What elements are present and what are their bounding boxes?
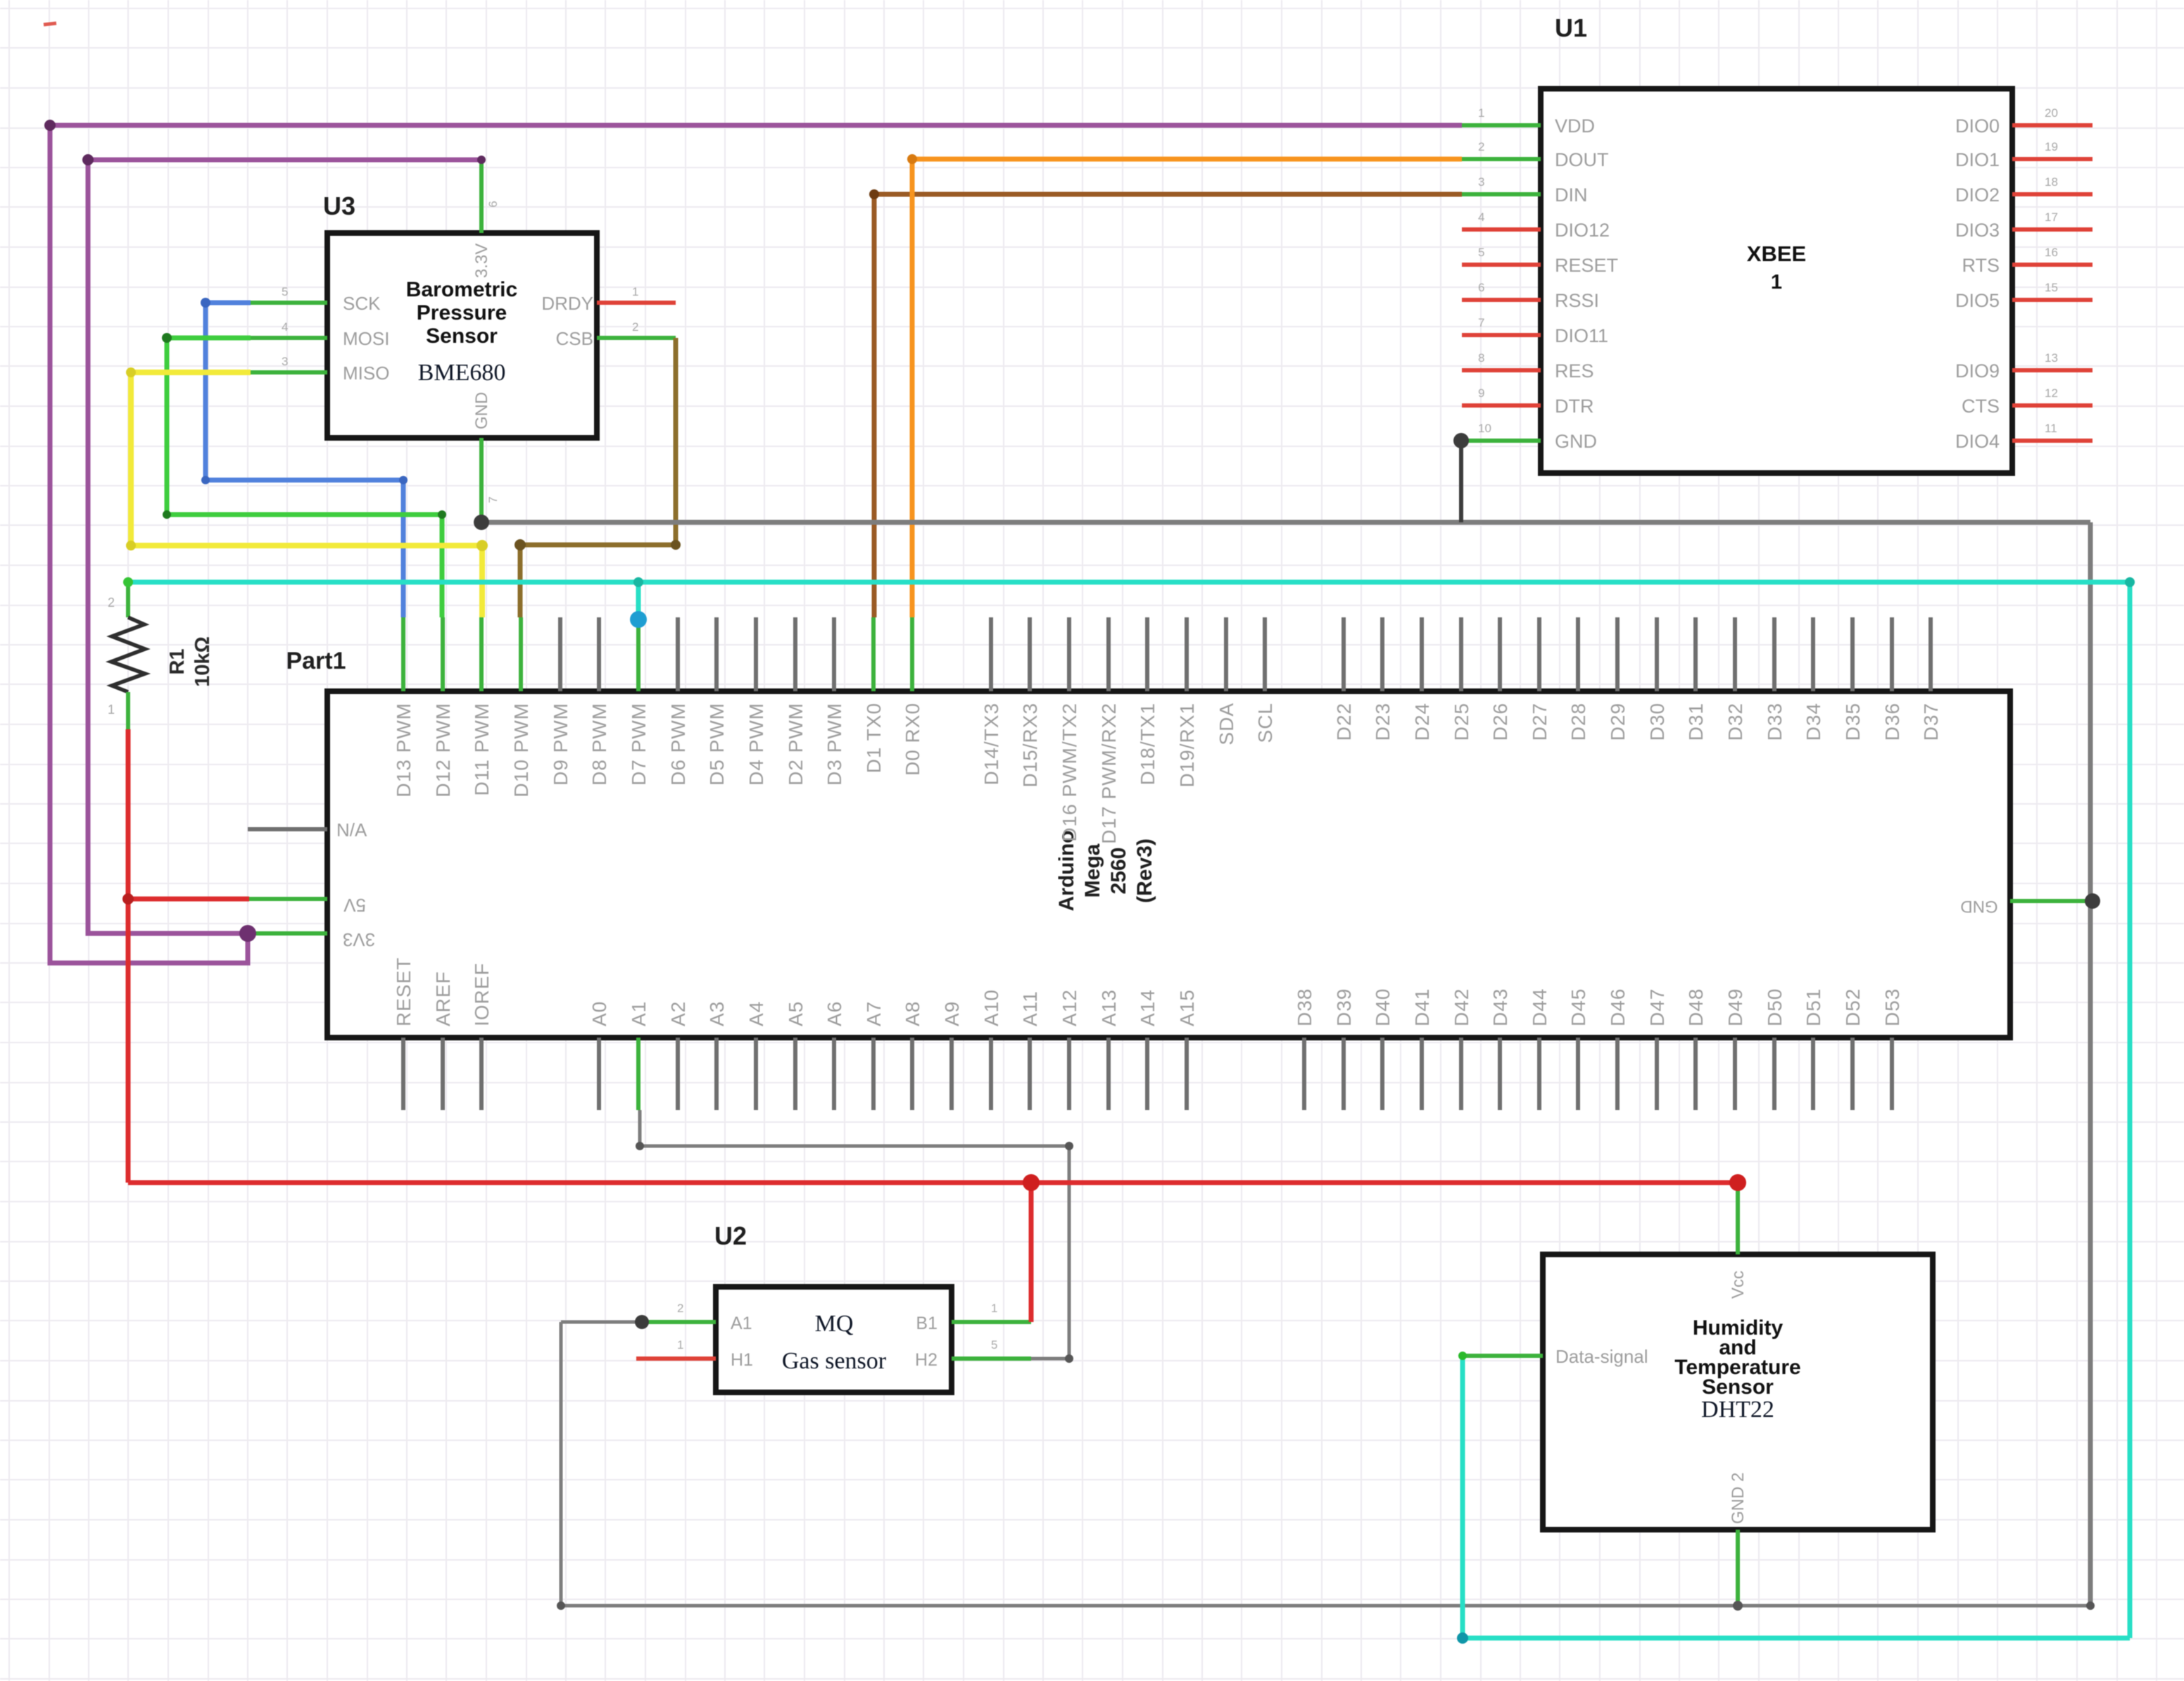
Part1 top pin D19/RX1: [1185, 617, 1189, 691]
IC U1 XBEE module: [1462, 13, 2093, 473]
sensor U2 MQ Gas sensor: [636, 1221, 1031, 1392]
svg-text:DIN: DIN: [1555, 184, 1588, 206]
Part1 right pin GND: [2010, 899, 2088, 903]
svg-text:CSB: CSB: [556, 328, 593, 349]
junction: yellow bend above D11: [476, 540, 488, 551]
svg-text:20: 20: [2045, 106, 2058, 120]
svg-text:A7: A7: [863, 1001, 885, 1026]
svg-text:AREF: AREF: [432, 971, 454, 1026]
svg-text:D49: D49: [1724, 988, 1746, 1026]
Part1 bottom pin D46: [1615, 1038, 1620, 1110]
svg-text:A3: A3: [706, 1001, 728, 1026]
svg-text:A2: A2: [667, 1001, 689, 1026]
svg-text:D15/RX3: D15/RX3: [1019, 703, 1041, 788]
wire: yellow U3 MISO to D11: [131, 372, 482, 617]
svg-text:3.3V: 3.3V: [472, 244, 491, 278]
U1 pin 9 DTR: [1462, 403, 1541, 408]
junction: orange bend at DOUT rail: [907, 154, 917, 164]
Part1 bottom pin D43: [1498, 1038, 1502, 1110]
Part1 bottom pin A11: [1028, 1038, 1032, 1110]
svg-text:D22: D22: [1333, 703, 1355, 741]
svg-text:D26: D26: [1489, 703, 1511, 741]
svg-text:DIO1: DIO1: [1955, 149, 2000, 170]
U1 pin 1 VDD: [1462, 123, 1541, 127]
svg-text:A12: A12: [1059, 989, 1080, 1026]
svg-text:D50: D50: [1764, 988, 1786, 1026]
U1 pin 10 GND: [1462, 439, 1541, 443]
svg-text:N/A: N/A: [336, 819, 367, 840]
U1 pin 12 CTS: [2012, 403, 2093, 408]
svg-text:A11: A11: [1019, 990, 1041, 1026]
Part1 bottom pin D44: [1537, 1038, 1541, 1110]
svg-text:D30: D30: [1646, 703, 1668, 741]
Part1 top pin D4 PWM: [754, 617, 758, 691]
junction: purple corner at U3 3.3V rail: [82, 154, 94, 165]
Part1 top pin D7 PWM: [636, 617, 640, 691]
U1 pin 8 RES: [1462, 368, 1541, 372]
junction: gray node at DHT22 GND: [1733, 1601, 1743, 1611]
junction: purple node at Part1 3V3: [239, 925, 256, 942]
junction: yellow bend lower left: [126, 541, 136, 550]
Part1 top pin D9 PWM: [558, 617, 562, 691]
Part1 top pin D22: [1342, 617, 1346, 691]
Part1 bottom pin D48: [1693, 1038, 1698, 1110]
svg-text:DHT22: DHT22: [1701, 1397, 1774, 1423]
Part1 top pin D2 PWM: [793, 617, 797, 691]
svg-text:7: 7: [486, 496, 500, 503]
svg-text:D51: D51: [1803, 988, 1824, 1026]
junction: red node at U2 B1 riser: [1023, 1174, 1040, 1191]
svg-text:D11 PWM: D11 PWM: [471, 703, 493, 796]
junction: gray bend at H2: [1065, 1354, 1073, 1363]
U3 pin 1 DRDY (unconnected): [597, 301, 676, 305]
Part1 top pin D30: [1655, 617, 1659, 691]
Part1 bottom pin A7: [871, 1038, 876, 1110]
svg-text:D29: D29: [1607, 703, 1629, 741]
svg-text:Vcc: Vcc: [1729, 1271, 1748, 1299]
Part1 top pin D25: [1459, 617, 1463, 691]
svg-text:D47: D47: [1646, 988, 1668, 1026]
Part1 bottom pin A1: [636, 1038, 640, 1110]
U1 pin 19 DIO1: [2012, 157, 2093, 161]
U1 pin 15 DIO5: [2012, 298, 2093, 302]
Part1 top pin SDA: [1224, 617, 1228, 691]
svg-text:DIO2: DIO2: [1955, 184, 2000, 206]
svg-text:U1: U1: [1555, 13, 1587, 42]
svg-text:DOUT: DOUT: [1555, 149, 1609, 170]
U3 pin 2 CSB: [597, 336, 676, 340]
svg-text:A1: A1: [628, 1001, 650, 1026]
svg-text:GND: GND: [1555, 431, 1597, 452]
U3 pin 5 SCK: [251, 301, 327, 305]
svg-text:Part1: Part1: [286, 648, 346, 674]
Part1 top pin D37: [1929, 617, 1933, 691]
svg-text:H1: H1: [731, 1350, 753, 1370]
Part1 bottom pin D45: [1576, 1038, 1580, 1110]
wire: blue U3 SCK to D13: [206, 303, 403, 617]
svg-text:Gas sensor: Gas sensor: [782, 1348, 887, 1374]
U1 pin 5 RESET: [1462, 263, 1541, 267]
U3 pin 3 MISO: [251, 370, 327, 374]
svg-text:D38: D38: [1294, 988, 1315, 1026]
Part1 bottom pin D39: [1342, 1038, 1346, 1110]
junction: gray node at U1 GND: [1453, 433, 1469, 448]
svg-text:DRDY: DRDY: [541, 293, 593, 314]
svg-text:D1 TX0: D1 TX0: [863, 703, 885, 773]
svg-text:D27: D27: [1529, 703, 1551, 741]
svg-text:MISO: MISO: [343, 363, 389, 384]
Part1 top pin D31: [1693, 617, 1698, 691]
junction: green bend at MOSI: [162, 333, 172, 343]
resistor R1 10k: [108, 582, 214, 729]
svg-text:DIO0: DIO0: [1955, 115, 2000, 137]
Part1 bottom pin A12: [1067, 1038, 1071, 1110]
svg-text:Sensor: Sensor: [1702, 1375, 1774, 1399]
junction: blue bend lower left: [201, 476, 210, 484]
DHT22 pin Data-signal: [1465, 1354, 1543, 1358]
U1 pin 17 DIO3: [2012, 227, 2093, 232]
svg-text:A8: A8: [902, 1001, 923, 1026]
Part1 bottom pin D51: [1811, 1038, 1815, 1110]
svg-text:1: 1: [1478, 106, 1484, 120]
svg-text:RESET: RESET: [1555, 255, 1618, 276]
wire: sienna U1 DIN to D1 TX0: [874, 194, 1462, 617]
svg-text:RESET: RESET: [393, 957, 415, 1026]
svg-text:D3 PWM: D3 PWM: [823, 703, 845, 786]
svg-text:D31: D31: [1685, 703, 1707, 741]
U1 pin 18 DIO2: [2012, 192, 2093, 196]
junction: cyan corner bottom: [1457, 1632, 1468, 1644]
U2 pin 2 A1: [643, 1320, 716, 1324]
svg-text:GND 2: GND 2: [1729, 1473, 1748, 1524]
junction: red bend at 5V pin: [122, 893, 134, 905]
Part1 bottom pin D47: [1655, 1038, 1659, 1110]
svg-text:5: 5: [1478, 246, 1484, 259]
svg-text:D12 PWM: D12 PWM: [432, 703, 454, 798]
Part1 bottom pin AREF: [441, 1038, 445, 1110]
svg-text:D40: D40: [1372, 988, 1394, 1026]
Part1 top pin D29: [1615, 617, 1620, 691]
Part1 bottom pin A4: [754, 1038, 758, 1110]
Part1 top pin D15/RX3: [1028, 617, 1032, 691]
svg-text:IOREF: IOREF: [471, 962, 493, 1026]
svg-text:D44: D44: [1529, 988, 1551, 1026]
Part1 top pin D3 PWM: [832, 617, 836, 691]
svg-text:D37: D37: [1920, 703, 1942, 741]
junction: purple end at U3 3.3V lead: [477, 156, 486, 164]
stray red mark: [44, 23, 56, 25]
svg-text:4: 4: [1478, 210, 1484, 224]
Part1 bottom pin D49: [1733, 1038, 1737, 1110]
svg-text:CTS: CTS: [1962, 396, 2000, 417]
svg-text:D6 PWM: D6 PWM: [667, 703, 689, 786]
Part1 bottom pin A10: [989, 1038, 993, 1110]
Part1 bottom pin A0: [597, 1038, 601, 1110]
sensor U3 Barometric Pressure Sensor BME680: [251, 160, 676, 522]
U3 pin 4 MOSI: [251, 336, 327, 340]
svg-text:D8 PWM: D8 PWM: [588, 703, 610, 786]
svg-text:VDD: VDD: [1555, 115, 1595, 137]
junction: cyan corner top right: [2125, 577, 2135, 587]
Part1 top pin D17 PWM/RX2: [1106, 617, 1111, 691]
Part1 top pin D13 PWM: [401, 617, 405, 691]
Part1 top pin D34: [1811, 617, 1815, 691]
svg-text:10kΩ: 10kΩ: [191, 636, 214, 687]
svg-text:RTS: RTS: [1962, 255, 2000, 276]
svg-text:1: 1: [677, 1338, 683, 1352]
junction: olive bend below CSB: [671, 540, 681, 550]
Part1 bottom pin RESET: [401, 1038, 405, 1110]
svg-text:D7 PWM: D7 PWM: [628, 703, 650, 786]
svg-text:12: 12: [2045, 386, 2058, 400]
U1 pin 7 DIO11: [1462, 333, 1541, 337]
svg-text:D0 RX0: D0 RX0: [902, 703, 923, 776]
svg-text:3: 3: [282, 355, 288, 368]
Part1 bottom pin D41: [1420, 1038, 1424, 1110]
Part1 top pin D10 PWM: [519, 617, 523, 691]
sensor Humidity and Temperature Sensor DHT22: [1465, 1183, 1933, 1606]
Part1 top pin D1 TX0: [871, 617, 876, 691]
svg-text:Sensor: Sensor: [426, 325, 498, 348]
Part1 top pin D12 PWM: [441, 617, 445, 691]
Part1 top pin D18/TX1: [1145, 617, 1149, 691]
Part1 bottom pin D42: [1459, 1038, 1463, 1110]
svg-text:17: 17: [2045, 210, 2058, 224]
svg-text:D28: D28: [1567, 703, 1589, 741]
svg-text:D16 PWM/TX2: D16 PWM/TX2: [1059, 703, 1080, 842]
Part1 top pin D35: [1850, 617, 1855, 691]
Part1 top pin D11 PWM: [479, 617, 484, 691]
U1 pin 20 DIO0: [2012, 123, 2093, 127]
junction: red node at DHT22 Vcc: [1729, 1174, 1746, 1191]
svg-text:4: 4: [282, 320, 288, 334]
svg-text:16: 16: [2045, 246, 2058, 259]
svg-text:2: 2: [632, 320, 638, 334]
Part1 bottom pin A6: [832, 1038, 836, 1110]
svg-text:GND: GND: [1960, 897, 1997, 916]
svg-text:D42: D42: [1451, 988, 1472, 1026]
Part1 top pin D0 RX0: [910, 617, 914, 691]
Part1 top pin D26: [1498, 617, 1502, 691]
U1 pin 3 DIN: [1462, 192, 1541, 196]
DHT22 pin GND 2 (bottom lead): [1736, 1530, 1740, 1606]
svg-text:A1: A1: [731, 1314, 752, 1333]
junction: blue bend at SCK: [201, 298, 210, 308]
wire: green U3 MOSI to D12: [167, 338, 442, 617]
junction: olive bend above D10: [515, 539, 526, 550]
svg-text:D45: D45: [1567, 988, 1589, 1026]
svg-text:D48: D48: [1685, 988, 1707, 1026]
junction: sienna bend at DIN rail: [869, 189, 879, 199]
svg-text:A5: A5: [785, 1001, 807, 1026]
U1 pin 16 RTS: [2012, 263, 2093, 267]
svg-text:9: 9: [1478, 386, 1484, 400]
svg-text:5V: 5V: [343, 895, 365, 916]
U1 pin 4 DIO12: [1462, 227, 1541, 232]
svg-text:D13 PWM: D13 PWM: [393, 703, 415, 798]
svg-text:D10 PWM: D10 PWM: [510, 703, 532, 798]
Part1 top pin D8 PWM: [597, 617, 601, 691]
svg-text:RSSI: RSSI: [1555, 290, 1599, 311]
svg-text:A9: A9: [941, 1001, 963, 1026]
svg-text:13: 13: [2045, 351, 2058, 365]
svg-text:BME680: BME680: [418, 360, 506, 386]
junction: cyan end at Data-signal: [1458, 1352, 1467, 1360]
svg-text:Data-signal: Data-signal: [1555, 1346, 1648, 1367]
svg-text:D2 PWM: D2 PWM: [785, 703, 807, 786]
U3 pin 6 3.3V (top lead): [479, 160, 484, 233]
svg-text:D32: D32: [1724, 703, 1746, 741]
svg-text:D39: D39: [1333, 988, 1355, 1026]
svg-text:DIO5: DIO5: [1955, 290, 2000, 311]
Part1 bottom pin A9: [949, 1038, 954, 1110]
junction: gray node at Part1 GND: [2085, 893, 2100, 909]
svg-text:1: 1: [1771, 271, 1782, 294]
Part1 bottom pin A3: [714, 1038, 719, 1110]
svg-text:10: 10: [1478, 422, 1491, 435]
junction: green node at R1 top / cyan start: [123, 577, 133, 587]
junction: gray bend below A1: [636, 1142, 644, 1150]
Part1 bottom pin A13: [1106, 1038, 1111, 1110]
junction: yellow bend at MISO: [126, 367, 136, 377]
Part1 top pin D5 PWM: [714, 617, 719, 691]
svg-text:11: 11: [2045, 422, 2057, 435]
svg-text:Pressure: Pressure: [417, 301, 507, 325]
Part1 top pin D28: [1576, 617, 1580, 691]
svg-text:2: 2: [677, 1302, 683, 1315]
junction: cyan tee above D7: [633, 577, 643, 587]
Part1 bottom pin A8: [910, 1038, 914, 1110]
svg-text:SCL: SCL: [1254, 703, 1276, 743]
U1 pin 6 RSSI: [1462, 298, 1541, 302]
Part1 top pin D36: [1890, 617, 1894, 691]
junction: blue bend above D13: [399, 476, 408, 484]
U2 pin B1: [952, 1320, 1031, 1324]
svg-text:D53: D53: [1881, 988, 1903, 1026]
svg-text:6: 6: [486, 201, 500, 207]
svg-text:R1: R1: [166, 648, 189, 674]
junction: gray bend bottom right: [2086, 1601, 2095, 1610]
svg-text:D4 PWM: D4 PWM: [745, 703, 767, 786]
Part1 bottom pin A15: [1185, 1038, 1189, 1110]
svg-text:MQ: MQ: [815, 1311, 854, 1337]
svg-text:D5 PWM: D5 PWM: [706, 703, 728, 786]
svg-text:D17 PWM/RX2: D17 PWM/RX2: [1098, 703, 1120, 844]
U1 pin 11 DIO4: [2012, 439, 2093, 443]
svg-text:1: 1: [632, 285, 638, 298]
Part1 bottom pin D38: [1302, 1038, 1306, 1110]
svg-text:GND: GND: [472, 392, 491, 429]
junction: gray node at U3 GND: [474, 515, 489, 530]
svg-text:DIO4: DIO4: [1955, 431, 2000, 452]
U1 pin 13 DIO9: [2012, 368, 2093, 372]
svg-text:MOSI: MOSI: [343, 328, 389, 349]
wire: red 5V rail (R1 to 5V pin, B1, DHT22 Vcc): [128, 729, 1738, 1322]
MCU Part1 Arduino Mega 2560 (Rev3): [248, 617, 2088, 1110]
junction: gray node at U2 A1: [635, 1315, 649, 1329]
Part1 top pin D33: [1772, 617, 1776, 691]
Part1 bottom pin D40: [1380, 1038, 1384, 1110]
svg-text:D24: D24: [1411, 703, 1433, 741]
Part1 left pin 5V: [249, 897, 327, 901]
svg-text:D23: D23: [1372, 703, 1394, 741]
wire: purple 3V3 rail from Part1 3V3 to U1 VDD: [50, 125, 1462, 963]
svg-text:DIO12: DIO12: [1555, 220, 1610, 241]
svg-text:7: 7: [1478, 316, 1484, 329]
svg-text:3V3: 3V3: [343, 929, 375, 950]
svg-text:15: 15: [2045, 281, 2058, 294]
Part1 bottom pin D52: [1850, 1038, 1855, 1110]
svg-text:1: 1: [108, 703, 115, 717]
junction: gray bend bottom left: [557, 1601, 565, 1610]
DHT22 pin Vcc (top lead): [1736, 1183, 1740, 1254]
svg-text:D35: D35: [1842, 703, 1864, 741]
svg-text:A0: A0: [588, 1001, 610, 1026]
svg-text:D33: D33: [1764, 703, 1786, 741]
svg-text:SCK: SCK: [343, 293, 381, 314]
svg-text:2: 2: [108, 596, 115, 610]
svg-text:D25: D25: [1451, 703, 1472, 741]
svg-text:3: 3: [1478, 175, 1484, 189]
svg-text:D52: D52: [1842, 988, 1864, 1026]
svg-text:Mega: Mega: [1081, 843, 1104, 898]
svg-text:DTR: DTR: [1555, 396, 1594, 417]
svg-text:DIO11: DIO11: [1555, 325, 1608, 346]
U1 pin 2 DOUT: [1462, 157, 1541, 161]
Part1 top pin D6 PWM: [676, 617, 680, 691]
junction: purple corner at U1 VDD rail: [44, 120, 56, 131]
svg-text:A10: A10: [980, 989, 1002, 1026]
svg-text:H2: H2: [915, 1350, 938, 1370]
wire: gray net A1 to U2 H2: [640, 1110, 1069, 1359]
wire: orange U1 DOUT to D0 RX0: [912, 159, 1462, 617]
svg-text:D46: D46: [1607, 988, 1629, 1026]
U2 pin H2: [952, 1356, 1031, 1361]
svg-text:8: 8: [1478, 351, 1484, 365]
svg-text:B1: B1: [916, 1314, 938, 1333]
svg-text:U2: U2: [714, 1221, 747, 1250]
junction: green bend above D12: [438, 510, 446, 519]
svg-text:18: 18: [2045, 175, 2058, 189]
svg-text:SDA: SDA: [1216, 703, 1237, 745]
svg-text:D43: D43: [1489, 988, 1511, 1026]
svg-text:2: 2: [1478, 140, 1484, 153]
svg-text:2560: 2560: [1107, 848, 1130, 895]
svg-text:A14: A14: [1137, 989, 1159, 1026]
svg-text:XBEE: XBEE: [1747, 241, 1806, 266]
Part1 top pin D32: [1733, 617, 1737, 691]
svg-text:DIO9: DIO9: [1955, 360, 2000, 382]
svg-text:5: 5: [282, 285, 288, 298]
svg-text:RES: RES: [1555, 360, 1594, 382]
Part1 bottom pin D50: [1772, 1038, 1776, 1110]
junction: gray bend right of A1 wire: [1065, 1142, 1073, 1150]
Part1 top pin D23: [1380, 617, 1384, 691]
U3 pin 7 GND (bottom lead): [479, 438, 484, 522]
junction: green bend left of D12 run: [163, 510, 171, 519]
svg-text:D9 PWM: D9 PWM: [550, 703, 572, 786]
svg-text:DIO3: DIO3: [1955, 220, 2000, 241]
Part1 top pin D14/TX3: [989, 617, 993, 691]
Part1 top pin D16 PWM/TX2: [1067, 617, 1071, 691]
svg-text:D18/TX1: D18/TX1: [1137, 703, 1159, 786]
svg-text:D19/RX1: D19/RX1: [1176, 703, 1198, 788]
svg-text:D41: D41: [1411, 988, 1433, 1026]
svg-text:5: 5: [991, 1338, 997, 1352]
wire: cyan net (R1 / D7 / DHT22 Data-signal): [128, 582, 2130, 1638]
svg-text:D36: D36: [1881, 703, 1903, 741]
svg-text:1: 1: [991, 1302, 997, 1315]
